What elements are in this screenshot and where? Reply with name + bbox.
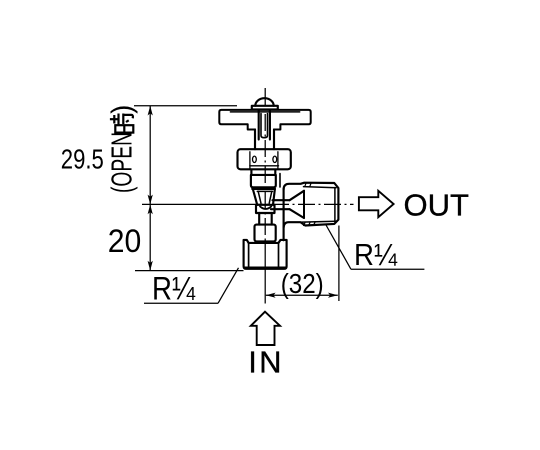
svg-text:(32): (32) (281, 268, 324, 299)
svg-text:29.5: 29.5 (61, 143, 104, 174)
svg-text:OUT: OUT (404, 187, 470, 222)
svg-text:(OPEN: (OPEN (107, 132, 139, 193)
svg-text:R¼: R¼ (354, 237, 398, 272)
svg-text:IN: IN (248, 345, 283, 380)
svg-text:): ) (107, 105, 139, 114)
svg-text:R¼: R¼ (152, 271, 196, 307)
svg-text:20: 20 (108, 223, 142, 259)
